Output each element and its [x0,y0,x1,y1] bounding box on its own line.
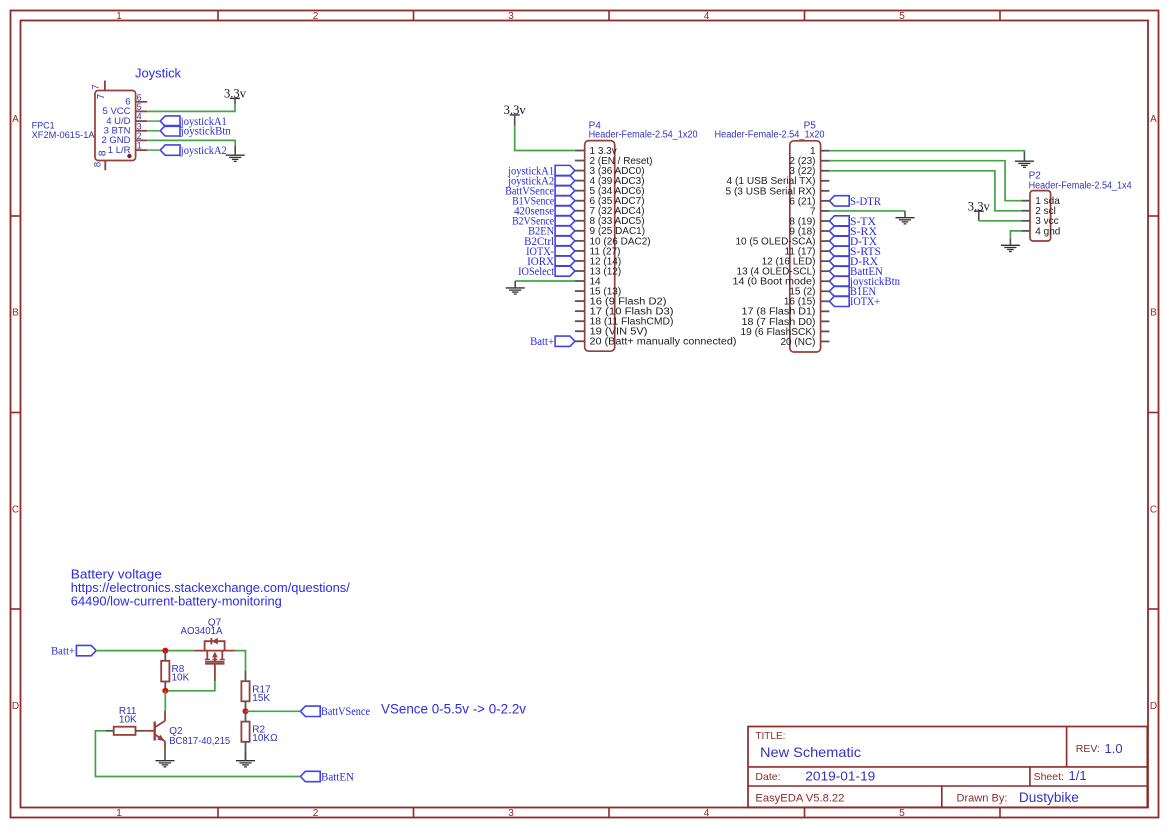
svg-text:C: C [1150,505,1157,516]
transistor Q7 AO3401A (PMOS) [194,638,235,681]
net label B1EN [829,286,876,298]
annotation Battery voltage [71,568,351,609]
svg-text:B: B [1150,308,1157,319]
label P2 [1029,170,1132,191]
svg-text:IOSelect: IOSelect [518,266,555,278]
svg-text:New Schematic: New Schematic [760,744,861,760]
svg-text:D: D [12,701,19,712]
wire [147,104,235,112]
ground [226,146,245,161]
svg-text:Header-Female-2.54_1x20: Header-Female-2.54_1x20 [715,130,825,141]
resistor R8 10K [161,651,189,691]
svg-text:3: 3 [137,121,142,131]
net label B1VSence [512,196,575,208]
svg-text:VSence 0-5.5v -> 0-2.2v: VSence 0-5.5v -> 0-2.2v [381,701,526,716]
label Q7 [181,617,223,637]
net label Batt+ [530,336,575,348]
wire [829,151,1024,152]
svg-text:EasyEDA V5.8.22: EasyEDA V5.8.22 [755,792,844,804]
svg-text:5: 5 [137,102,142,112]
net label Batt+ [51,645,96,657]
svg-text:4: 4 [137,112,142,122]
svg-text:B: B [12,308,19,319]
svg-text:4: 4 [704,11,710,22]
svg-text:2: 2 [313,11,319,22]
svg-text:joystickA2: joystickA2 [180,145,227,157]
resistor R2 10KΩ [241,711,278,760]
wire [235,651,246,671]
svg-text:7: 7 [91,84,102,89]
svg-text:2019-01-19: 2019-01-19 [805,769,875,784]
svg-text:https://electronics.stackexcha: https://electronics.stackexchange.com/qu… [71,581,351,595]
svg-text:BattEN: BattEN [321,771,355,783]
svg-text:TITLE:: TITLE: [755,731,785,742]
annotation Joystick [135,67,182,81]
svg-text:joystickBtn: joystickBtn [180,126,231,138]
connector P2 Header-Female-2.54_1x4 [1021,191,1060,241]
svg-text:10K: 10K [172,672,190,683]
ground [236,752,255,767]
ground [1015,152,1034,167]
svg-text:D: D [1150,701,1157,712]
node junction [162,648,168,654]
power flag 3.3v [968,199,991,221]
ground [156,750,175,767]
net label D-RX [829,256,878,268]
svg-text:S-DTR: S-DTR [850,196,881,208]
svg-text:Dustybike: Dustybike [1019,790,1079,805]
net label S-RX [829,226,877,238]
svg-text:15K: 15K [252,693,270,704]
net label joystickA1 [507,165,575,177]
svg-text:5: 5 [899,11,905,22]
wire [147,149,160,151]
net label joystickBtn [160,126,231,138]
net label D-TX [829,236,877,248]
resistor R17 15K [241,671,271,711]
wire [1010,231,1021,238]
svg-text:4: 4 [704,808,710,819]
wire [147,120,160,122]
node junction [243,708,249,714]
svg-text:IOTX+: IOTX+ [850,296,880,308]
svg-text:Batt+: Batt+ [51,646,75,658]
svg-text:20 (NC): 20 (NC) [780,337,815,348]
svg-text:20 (Batt+ manually connected): 20 (Batt+ manually connected) [590,337,737,348]
svg-text:Batt+: Batt+ [530,336,554,348]
svg-text:XF2M-0615-1A: XF2M-0615-1A [32,130,96,141]
connector P4 Header-Female-2.54_1x20 [575,141,737,352]
label P4 [589,120,698,140]
svg-text:7: 7 [95,94,107,100]
ground [506,281,525,294]
transistor Q2 BC817-40,215 (NPN) [145,711,165,750]
wire [829,210,905,212]
wire [515,280,575,282]
svg-text:A: A [12,114,19,125]
net label B2EN [528,226,575,238]
svg-text:4 gnd: 4 gnd [1035,226,1060,237]
svg-text:1: 1 [116,808,122,819]
net label BattVSence [300,706,370,718]
net label BattVSence [505,185,575,197]
wire [246,710,301,712]
svg-text:Drawn By:: Drawn By: [957,792,1008,804]
resistor R11 10K [106,706,146,735]
svg-text:C: C [12,505,19,516]
net label joystickA1 [160,116,227,128]
title block [748,727,1147,808]
net label IOTX- [526,246,575,258]
wire [96,650,194,652]
net label IOTX+ [829,296,880,308]
wire [829,171,1021,211]
wire [95,731,300,777]
net label S-TX [829,216,876,228]
wire [165,681,215,691]
net label S-DTR [829,196,881,208]
wire [147,130,160,132]
wire [979,220,1021,222]
node junction [162,688,168,694]
wire [515,125,576,150]
svg-text:1: 1 [137,141,142,151]
svg-text:3: 3 [508,11,514,22]
net label joystickA2 [507,175,575,187]
net label IORX [527,256,575,268]
connector P5 Header-Female-2.54_1x20 [726,141,830,352]
annotation VSence range [381,701,526,716]
svg-text:BattVSence: BattVSence [321,706,370,718]
svg-text:REV:: REV: [1076,743,1100,755]
label FPC1 [32,121,96,142]
svg-text:1 L/R: 1 L/R [108,145,131,156]
svg-text:1.0: 1.0 [1105,741,1123,756]
net label BattEN [829,266,883,278]
svg-text:5: 5 [899,808,905,819]
svg-text:6: 6 [137,92,142,102]
svg-text:Header-Female-2.54_1x4: Header-Female-2.54_1x4 [1029,180,1132,191]
svg-text:Sheet:: Sheet: [1034,771,1064,783]
net label IOSelect [518,266,575,278]
svg-text:A: A [1150,114,1157,125]
svg-text:BC817-40,215: BC817-40,215 [169,736,230,747]
svg-text:AO3401A: AO3401A [181,626,223,637]
ground [1001,238,1020,251]
wire [147,140,235,146]
wire [829,161,1021,201]
label Q2 [169,726,230,747]
net label BattEN [300,771,354,783]
svg-text:10K: 10K [119,714,137,725]
power flag 3.3v [224,87,247,104]
svg-text:Date:: Date: [755,771,780,783]
svg-text:2: 2 [313,808,319,819]
net label B2Ctrl [524,236,575,248]
svg-text:1/1: 1/1 [1069,768,1087,783]
svg-text:8: 8 [92,162,103,167]
net label 420sense [514,206,575,218]
svg-text:Header-Female-2.54_1x20: Header-Female-2.54_1x20 [589,129,698,140]
wire [164,691,166,711]
svg-text:Battery voltage: Battery voltage [71,568,162,582]
net label joystickBtn [829,276,900,288]
net label B2VSence [512,216,575,228]
connector FPC1 XF2M-0615-1A [91,81,148,171]
net label S-RTS [829,246,881,258]
svg-text:Joystick: Joystick [135,67,182,81]
net label joystickA2 [160,145,227,157]
svg-text:64490/low-current-battery-moni: 64490/low-current-battery-monitoring [71,595,282,609]
svg-text:3: 3 [508,808,514,819]
svg-text:10KΩ: 10KΩ [252,733,278,744]
power flag 3.3v [504,103,527,125]
svg-text:1: 1 [116,11,122,22]
label P5 [715,120,825,140]
svg-text:8: 8 [96,150,108,156]
svg-text:2: 2 [137,131,142,141]
ground [896,211,915,224]
